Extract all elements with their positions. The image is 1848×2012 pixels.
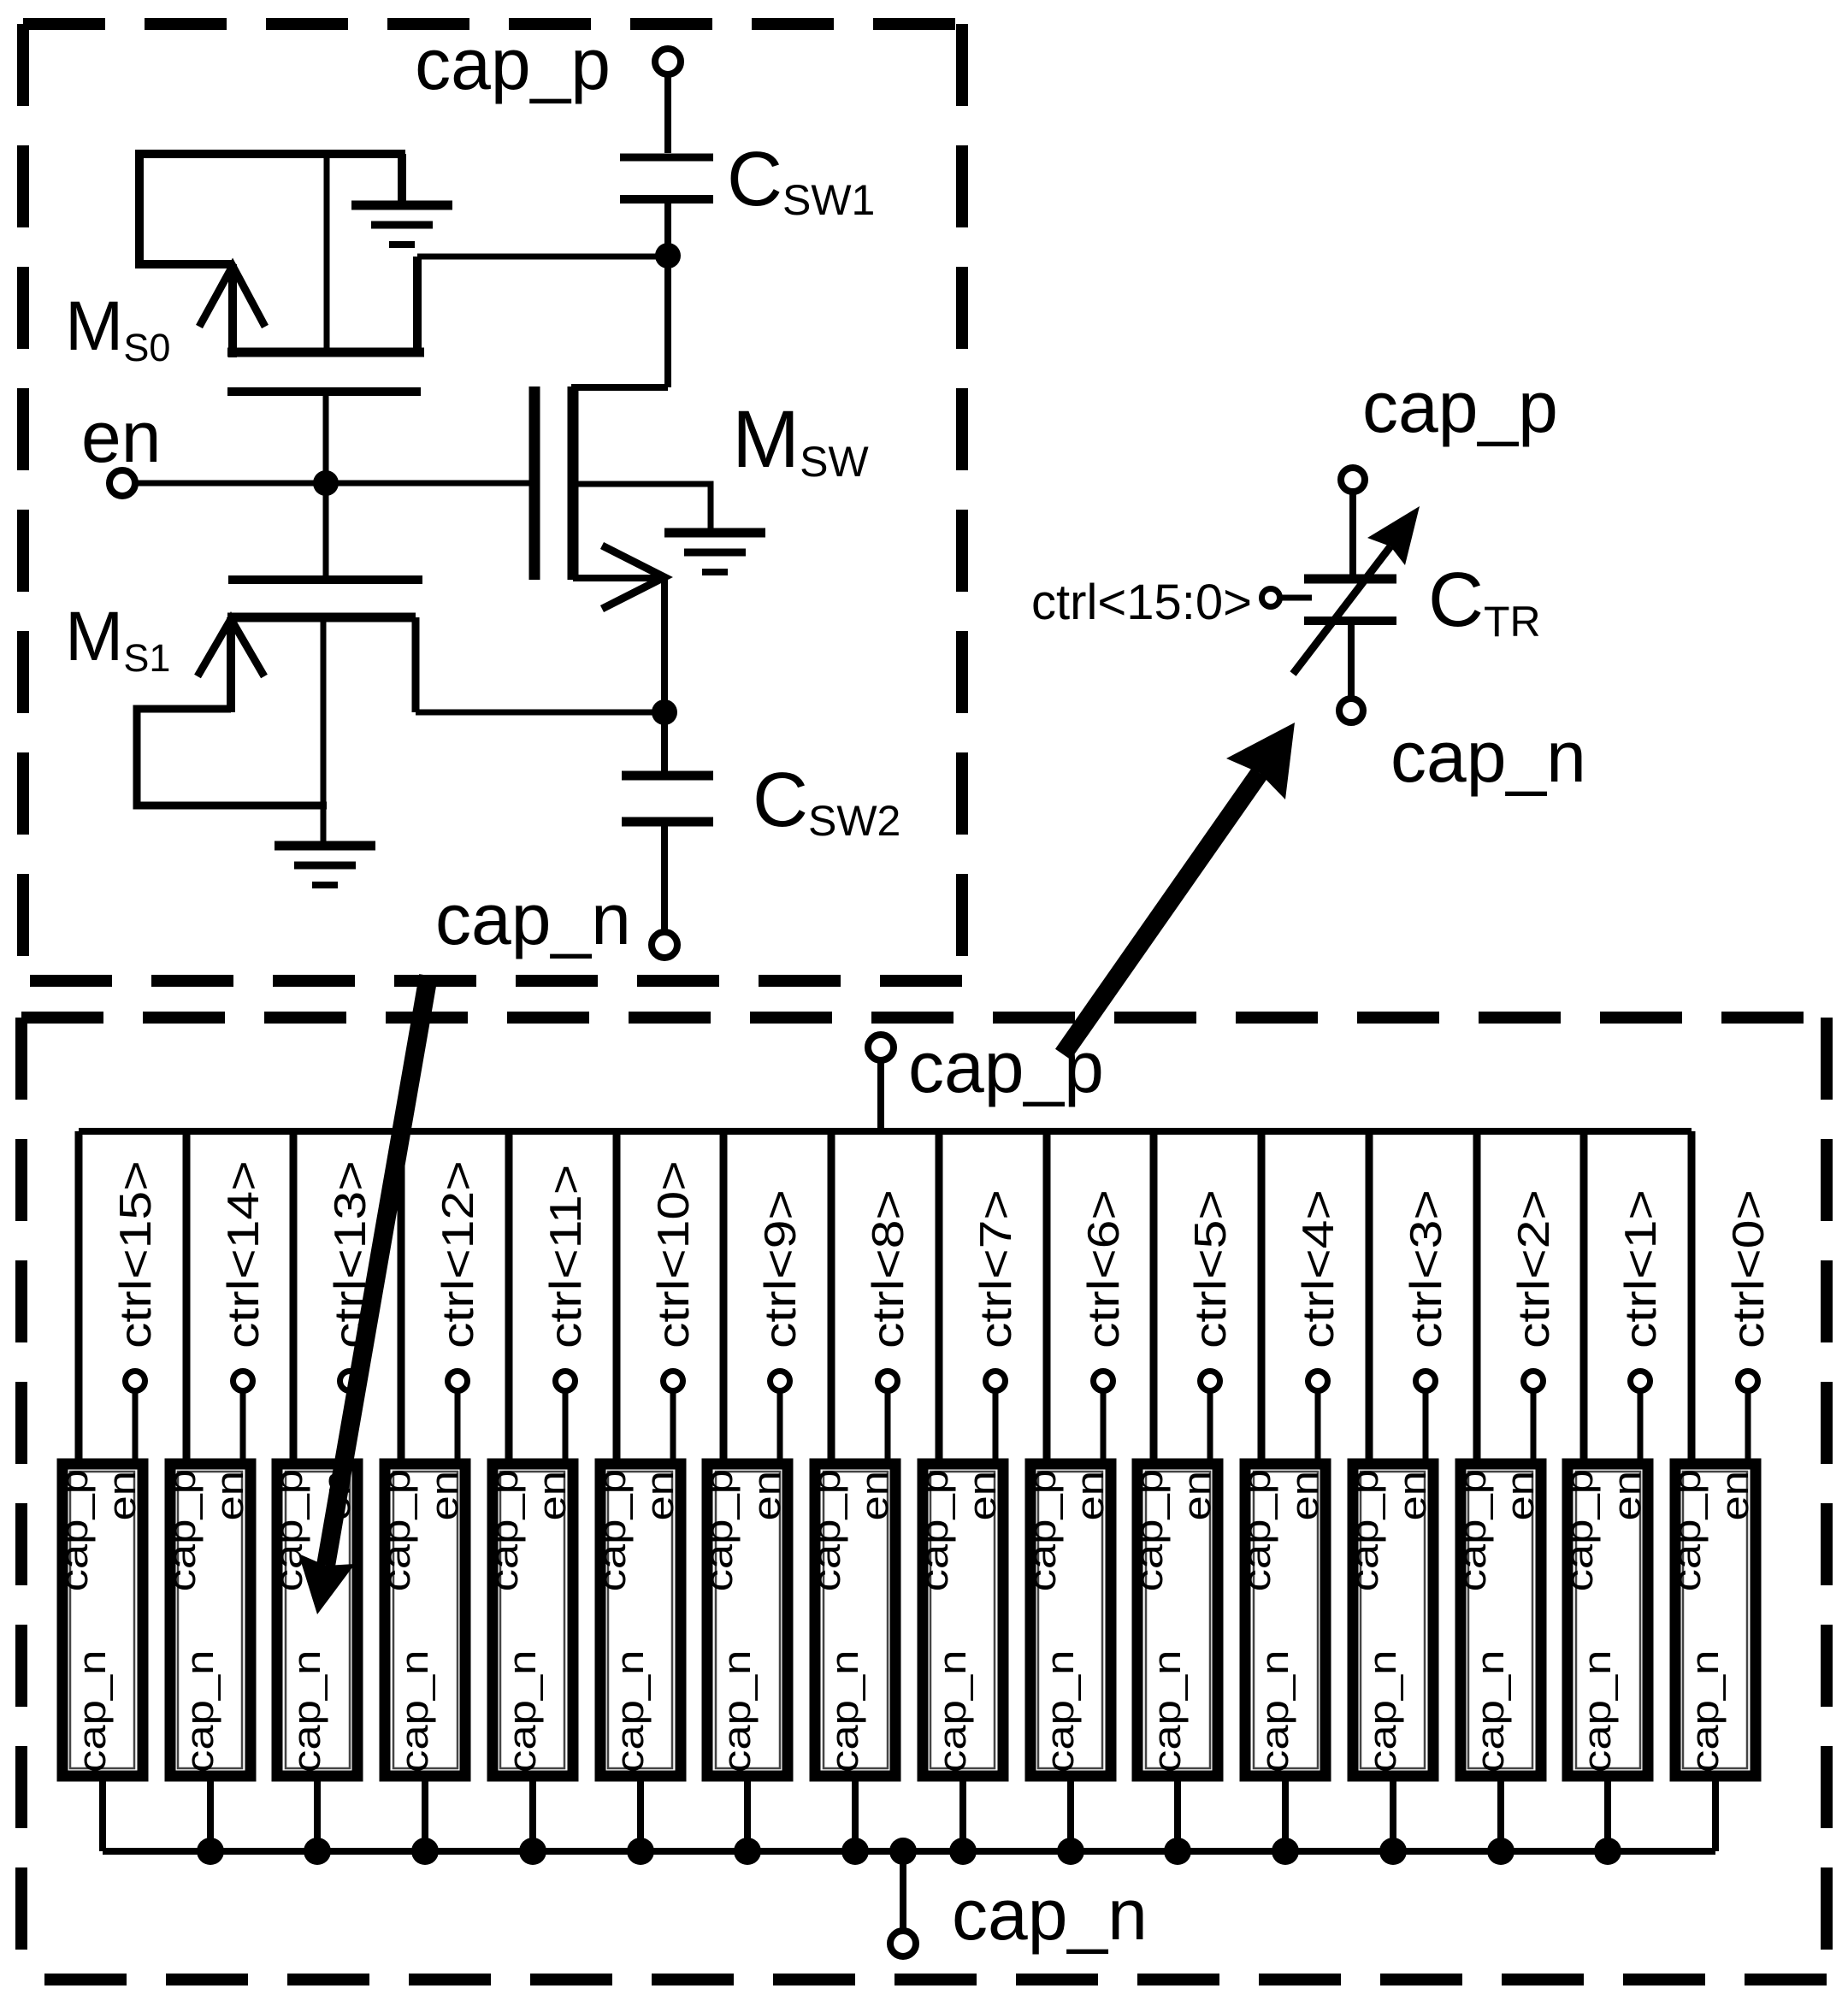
svg-text:cap_n: cap_n (179, 1650, 221, 1773)
svg-text:ctrl<1>: ctrl<1> (1615, 1189, 1665, 1348)
svg-text:ctrl<5>: ctrl<5> (1185, 1189, 1235, 1348)
svg-text:cap_n: cap_n (1684, 1650, 1727, 1773)
svg-text:ctrl<11>: ctrl<11> (540, 1165, 590, 1348)
svg-text:en: en (81, 397, 161, 477)
svg-text:cap_p: cap_p (483, 1469, 526, 1591)
svg-text:cap_p: cap_p (415, 24, 611, 104)
svg-text:cap_n: cap_n (952, 1874, 1148, 1955)
svg-text:ctrl<15>: ctrl<15> (110, 1160, 160, 1348)
svg-text:en: en (1284, 1471, 1326, 1521)
svg-text:cap_p: cap_p (375, 1469, 418, 1591)
svg-text:cap_n: cap_n (716, 1650, 759, 1773)
svg-text:en: en (853, 1471, 896, 1521)
svg-text:cap_p: cap_p (1666, 1469, 1709, 1591)
svg-text:cap_n: cap_n (435, 879, 631, 959)
svg-text:cap_p: cap_p (1451, 1469, 1494, 1591)
svg-text:cap_p: cap_p (1558, 1469, 1601, 1591)
svg-text:cap_n: cap_n (609, 1650, 652, 1773)
svg-text:cap_p: cap_p (268, 1469, 310, 1591)
svg-text:en: en (1714, 1471, 1756, 1521)
svg-text:cap_n: cap_n (824, 1650, 866, 1773)
svg-text:cap_p: cap_p (806, 1469, 848, 1591)
svg-text:ctrl<2>: ctrl<2> (1509, 1189, 1558, 1348)
svg-text:en: en (1069, 1471, 1112, 1521)
svg-text:cap_p: cap_p (161, 1469, 204, 1591)
svg-text:cap_p: cap_p (1128, 1469, 1171, 1591)
svg-text:ctrl<10>: ctrl<10> (648, 1160, 698, 1348)
svg-text:cap_n: cap_n (1039, 1650, 1082, 1773)
svg-text:en: en (961, 1471, 1004, 1521)
svg-text:ctrl<12>: ctrl<12> (433, 1160, 482, 1348)
svg-text:en: en (639, 1471, 682, 1521)
svg-text:en: en (1391, 1471, 1434, 1521)
svg-text:cap_p: cap_p (698, 1469, 741, 1591)
svg-text:cap_p: cap_p (913, 1469, 956, 1591)
svg-text:cap_p: cap_p (908, 1027, 1104, 1107)
svg-text:ctrl<0>: ctrl<0> (1723, 1189, 1773, 1348)
svg-text:ctrl<9>: ctrl<9> (755, 1189, 805, 1348)
svg-text:cap_n: cap_n (1146, 1650, 1189, 1773)
svg-text:cap_p: cap_p (1021, 1469, 1064, 1591)
svg-text:cap_n: cap_n (1361, 1650, 1404, 1773)
svg-text:cap_n: cap_n (393, 1650, 436, 1773)
svg-text:cap_p: cap_p (1343, 1469, 1386, 1591)
svg-text:ctrl<4>: ctrl<4> (1293, 1189, 1343, 1348)
svg-text:en: en (101, 1471, 144, 1521)
svg-text:cap_n: cap_n (1469, 1650, 1512, 1773)
svg-text:ctrl<15:0>: ctrl<15:0> (1031, 575, 1252, 630)
svg-text:cap_p: cap_p (591, 1469, 634, 1591)
svg-text:cap_n: cap_n (1390, 717, 1586, 797)
svg-text:cap_n: cap_n (1254, 1650, 1296, 1773)
svg-text:cap_n: cap_n (286, 1650, 328, 1773)
svg-text:cap_p: cap_p (1362, 367, 1558, 447)
svg-text:cap_n: cap_n (71, 1650, 114, 1773)
svg-text:ctrl<14>: ctrl<14> (218, 1160, 268, 1348)
svg-text:en: en (1176, 1471, 1219, 1521)
svg-text:cap_n: cap_n (1576, 1650, 1619, 1773)
svg-text:en: en (746, 1471, 788, 1521)
svg-text:cap_n: cap_n (501, 1650, 544, 1773)
svg-text:cap_n: cap_n (931, 1650, 974, 1773)
svg-text:ctrl<6>: ctrl<6> (1078, 1189, 1128, 1348)
svg-text:ctrl<8>: ctrl<8> (863, 1189, 912, 1348)
svg-text:en: en (209, 1471, 251, 1521)
svg-text:en: en (1606, 1471, 1649, 1521)
svg-text:ctrl<7>: ctrl<7> (971, 1189, 1020, 1348)
svg-text:ctrl<3>: ctrl<3> (1401, 1189, 1450, 1348)
svg-text:en: en (531, 1471, 574, 1521)
svg-text:cap_p: cap_p (53, 1469, 96, 1591)
svg-text:en: en (1499, 1471, 1542, 1521)
svg-text:en: en (423, 1471, 466, 1521)
svg-text:cap_p: cap_p (1236, 1469, 1278, 1591)
